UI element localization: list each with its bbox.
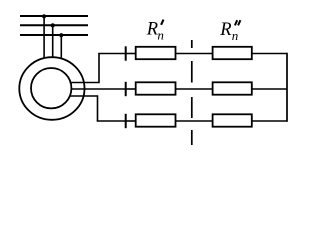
- wire: rotor brush lead 1 (to row 1): [70, 54, 100, 83]
- wire: supply line L3: [20, 34, 88, 36]
- resistor R''n row 2: [213, 82, 252, 94]
- wire: row 3 tick to resistor: [126, 120, 135, 122]
- wire: row 3 to right bus: [251, 120, 287, 122]
- resistor R'n row 2: [136, 82, 176, 94]
- wire: supply line L2: [20, 24, 88, 26]
- resistor R'n row 1: [136, 47, 176, 59]
- svg-text:R: R: [146, 20, 158, 40]
- motor M1 stator (outer circle): [19, 57, 84, 120]
- svg-text:n: n: [232, 28, 239, 43]
- svg-text:n: n: [157, 28, 164, 43]
- wire: stator tap from L1: [43, 16, 45, 59]
- dashed stage separator line: [191, 40, 193, 145]
- wire: supply line L1: [20, 15, 88, 17]
- wire: rotor brush lead 2 (row 2 feed): [71, 88, 126, 90]
- label R''n: [219, 20, 240, 43]
- svg-text:R: R: [219, 20, 231, 40]
- wire: stator tap from L2: [52, 25, 54, 57]
- wire: row 2 to right bus: [251, 88, 287, 90]
- resistor R''n row 1: [213, 47, 252, 59]
- wire: row 1 tick to resistor: [126, 53, 135, 55]
- contact tick row 2: [125, 82, 127, 96]
- resistor R''n row 3: [213, 114, 252, 126]
- node: junction dot on L1: [42, 14, 46, 18]
- wire: row 2 contact to resistor: [126, 88, 135, 90]
- wire: row 1 to right bus: [251, 53, 287, 55]
- wire: right shorting bus: [286, 53, 288, 122]
- wire: row 3 between resistor stages: [176, 120, 213, 122]
- wire: rotor brush lead 3 (to row 3): [70, 96, 98, 121]
- motor M1 rotor (inner circle): [31, 68, 71, 108]
- wire: row 1 from lead to contact: [98, 53, 126, 55]
- resistor R'n row 3: [136, 114, 176, 126]
- label R'n: [146, 20, 164, 43]
- wire: row 2 between resistor stages: [176, 88, 213, 90]
- node: junction dot on L2: [51, 23, 55, 27]
- wire: row 3 from lead to contact: [97, 120, 126, 122]
- wire: row 1 between resistor stages: [176, 53, 213, 55]
- contact tick row 1: [125, 46, 127, 60]
- contact tick row 3: [125, 114, 127, 128]
- node: junction dot on L3: [59, 33, 63, 37]
- wire: stator tap from L3: [60, 35, 62, 59]
